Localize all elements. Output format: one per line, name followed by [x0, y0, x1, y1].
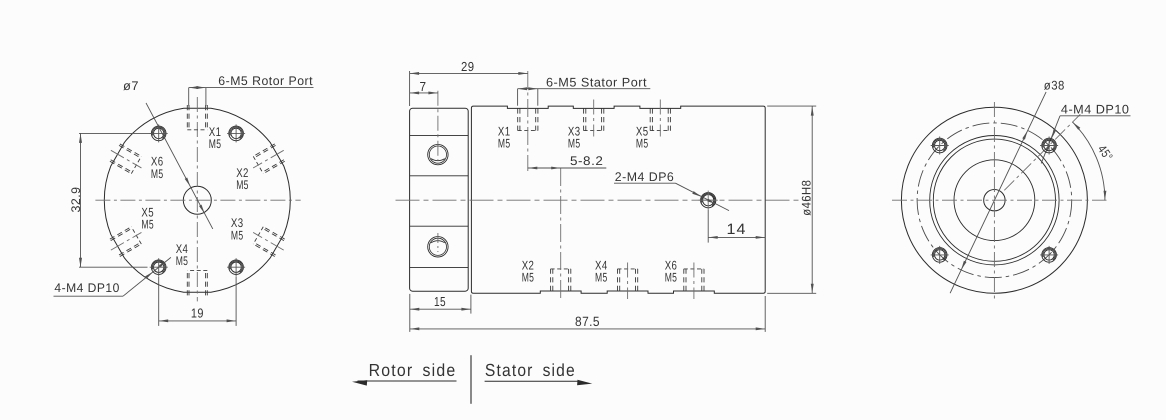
svg-text:M5: M5 — [498, 137, 511, 151]
svg-text:5-8.2: 5-8.2 — [570, 154, 603, 168]
svg-text:19: 19 — [191, 306, 204, 321]
svg-text:M5: M5 — [236, 178, 249, 192]
svg-text:M5: M5 — [522, 270, 535, 284]
svg-text:ø46H8: ø46H8 — [800, 180, 814, 216]
svg-text:87.5: 87.5 — [575, 314, 600, 329]
svg-text:ø38: ø38 — [1044, 78, 1065, 92]
svg-text:M5: M5 — [665, 270, 678, 284]
svg-text:15: 15 — [434, 294, 446, 309]
svg-text:Rotor side: Rotor side — [369, 360, 457, 380]
svg-text:M5: M5 — [636, 137, 649, 151]
svg-text:6-M5 Stator Port: 6-M5 Stator Port — [546, 76, 647, 90]
svg-text:M5: M5 — [209, 137, 222, 151]
svg-text:14: 14 — [727, 221, 747, 238]
svg-text:ø7: ø7 — [123, 79, 139, 93]
svg-text:M5: M5 — [151, 167, 164, 181]
svg-text:M5: M5 — [176, 254, 189, 268]
svg-text:M5: M5 — [141, 218, 154, 232]
svg-text:4-M4 DP10: 4-M4 DP10 — [1061, 103, 1130, 117]
svg-text:M5: M5 — [568, 137, 581, 151]
svg-text:29: 29 — [461, 59, 475, 74]
svg-text:2-M4 DP6: 2-M4 DP6 — [615, 170, 675, 184]
svg-text:Stator side: Stator side — [485, 360, 576, 380]
svg-text:M5: M5 — [231, 228, 244, 242]
svg-text:M5: M5 — [595, 270, 608, 284]
svg-text:4-M4 DP10: 4-M4 DP10 — [54, 281, 119, 295]
svg-text:7: 7 — [420, 79, 427, 94]
svg-text:6-M5 Rotor Port: 6-M5 Rotor Port — [218, 74, 313, 88]
svg-text:32.9: 32.9 — [69, 187, 83, 213]
